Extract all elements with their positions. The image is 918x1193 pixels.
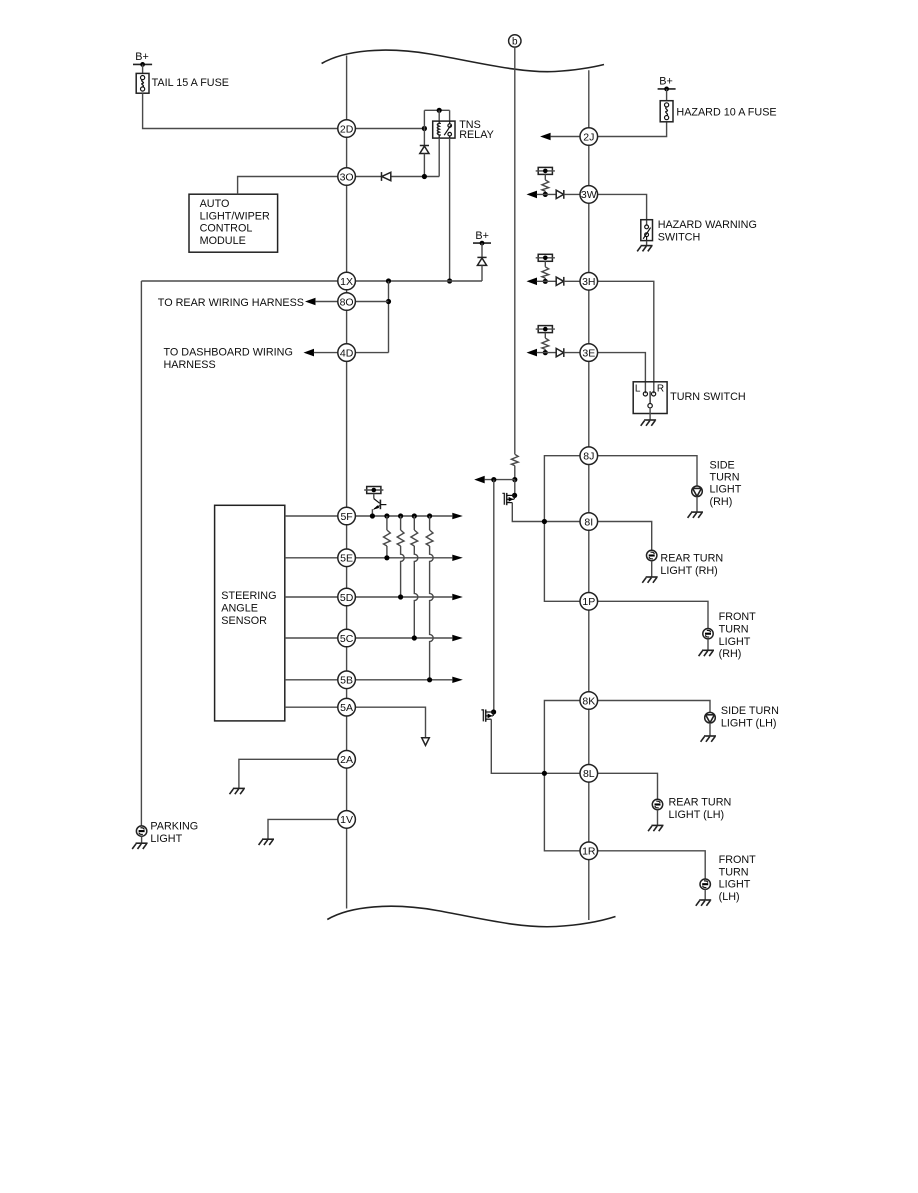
label TO DASHBOARD WIRING HARNESS bbox=[164, 346, 293, 370]
resistor R5 (center bus) bbox=[511, 454, 518, 465]
lamp SIDE TURN LIGHT (RH) bbox=[692, 486, 703, 512]
wire: resistor to junction bbox=[512, 466, 517, 483]
node 4D to-dashboard arrow bbox=[304, 349, 338, 357]
wire: sensor pin to 5D bbox=[285, 596, 338, 598]
wire: 1X/8O/4D junction vertical bbox=[386, 281, 391, 353]
svg-text:TO DASHBOARD WIRING: TO DASHBOARD WIRING bbox=[164, 346, 293, 358]
wire: rail to coil top pin bbox=[438, 110, 440, 121]
wire: 3E to turn switch L bbox=[598, 353, 646, 394]
module AUTO LIGHT/WIPER CONTROL MODULE bbox=[189, 194, 278, 252]
ground (side turn RH) bbox=[688, 512, 703, 518]
svg-text:2A: 2A bbox=[340, 754, 353, 766]
node 8I bbox=[580, 513, 598, 531]
wire: 4D right stub bbox=[355, 352, 388, 354]
svg-text:5C: 5C bbox=[340, 633, 354, 645]
wire: junction arrow left bbox=[474, 476, 515, 484]
svg-text:TURN SWITCH: TURN SWITCH bbox=[670, 391, 746, 403]
resistor R3 (5F-5C) bbox=[411, 516, 418, 641]
svg-text:LIGHT: LIGHT bbox=[150, 833, 182, 845]
junction dots on 5F row bbox=[370, 513, 432, 518]
node 1R bbox=[580, 842, 598, 860]
svg-text:1V: 1V bbox=[340, 814, 353, 826]
svg-text:3H: 3H bbox=[582, 276, 595, 288]
svg-text:R: R bbox=[657, 384, 664, 395]
ground (2A) bbox=[230, 788, 245, 794]
wire: 2A to ground bbox=[239, 759, 338, 788]
svg-text:HARNESS: HARNESS bbox=[164, 359, 216, 371]
lamp PARKING LIGHT bbox=[136, 820, 198, 844]
svg-text:L: L bbox=[635, 384, 641, 395]
wire: 8K to side turn light LH bbox=[598, 701, 710, 713]
wire: 1P to front turn light RH bbox=[598, 601, 708, 628]
node 1V bbox=[338, 811, 356, 829]
lamp SIDE TURN LIGHT (LH) bbox=[705, 712, 716, 735]
wire: 5A to open terminator bbox=[355, 707, 425, 737]
svg-text:LIGHT: LIGHT bbox=[719, 879, 751, 891]
svg-text:SIDE TURN: SIDE TURN bbox=[721, 705, 779, 717]
svg-text:8J: 8J bbox=[583, 451, 594, 463]
node 2J arrow (to hazard feed) bbox=[540, 133, 580, 141]
node 8L bbox=[580, 765, 598, 783]
fuse TAIL 15 A FUSE bbox=[136, 73, 229, 93]
svg-text:FRONT: FRONT bbox=[719, 854, 757, 866]
wire: 5E row to arrow bbox=[355, 555, 462, 561]
resistor R1 (5F-5E) bbox=[384, 516, 391, 560]
wire: B+ to TAIL fuse bbox=[142, 64, 144, 73]
svg-text:LIGHT (RH): LIGHT (RH) bbox=[660, 565, 717, 577]
svg-text:SENSOR: SENSOR bbox=[221, 615, 267, 627]
svg-text:TURN: TURN bbox=[710, 471, 740, 483]
svg-text:2D: 2D bbox=[340, 123, 354, 135]
wire: 8J left branch down to 1P bbox=[542, 456, 580, 602]
node 5B bbox=[338, 671, 356, 689]
svg-text:3E: 3E bbox=[582, 347, 595, 359]
svg-text:8I: 8I bbox=[584, 516, 593, 528]
node 1X bbox=[338, 272, 356, 290]
diode D2 (3O line) bbox=[382, 172, 391, 181]
wire: sensor pin to 5C bbox=[285, 637, 338, 639]
ground (1V) bbox=[259, 839, 274, 845]
wire: 8L to rear turn light LH bbox=[598, 773, 658, 799]
wire: 2J to HAZARD fuse bbox=[598, 122, 667, 137]
ground (turn switch) bbox=[641, 420, 656, 426]
wire: 3O to relay coil bottom bbox=[355, 138, 439, 179]
wire: rail to switch top pin bbox=[449, 110, 451, 121]
wire: relay top rail bbox=[424, 108, 449, 113]
node 4D bbox=[338, 344, 356, 362]
svg-text:TAIL 15 A FUSE: TAIL 15 A FUSE bbox=[152, 77, 229, 89]
svg-text:PARKING: PARKING bbox=[150, 820, 198, 832]
svg-text:REAR TURN: REAR TURN bbox=[669, 797, 732, 809]
wire: B+ to HAZARD fuse bbox=[666, 89, 668, 101]
wire: sensor pin to 5A bbox=[285, 706, 338, 708]
module STEERING ANGLE SENSOR bbox=[215, 505, 285, 721]
connector/resistor/diode set at 3H bbox=[527, 254, 581, 285]
node 3O bbox=[338, 168, 356, 186]
svg-text:B+: B+ bbox=[659, 76, 673, 88]
svg-text:(RH): (RH) bbox=[719, 648, 742, 660]
label REAR TURN LIGHT (RH) bbox=[660, 552, 723, 576]
node 1P bbox=[580, 593, 598, 611]
wire: sensor pin to 5B bbox=[285, 679, 338, 681]
wire: lower harness break (wavy line) bbox=[327, 906, 615, 926]
diode D1 (TNS relay clamp) bbox=[420, 129, 429, 177]
svg-text:1X: 1X bbox=[340, 276, 353, 288]
node B+ (TNS backup) and diode D3 bbox=[473, 230, 491, 281]
svg-text:ANGLE: ANGLE bbox=[221, 602, 258, 614]
node 3E bbox=[580, 344, 598, 362]
node 3W bbox=[580, 186, 598, 204]
svg-text:b: b bbox=[512, 37, 518, 48]
node 2D bbox=[338, 120, 356, 138]
node 2J bbox=[580, 128, 598, 146]
svg-text:B+: B+ bbox=[135, 51, 149, 63]
svg-text:SIDE: SIDE bbox=[710, 459, 735, 471]
transistor Q1 (to 5F row) bbox=[372, 494, 386, 517]
svg-text:TURN: TURN bbox=[719, 866, 749, 878]
node 5D bbox=[338, 588, 356, 606]
switch S1 HAZARD WARNING SWITCH bbox=[641, 219, 757, 243]
resistor R2 (5F-5D) bbox=[397, 516, 404, 600]
svg-text:1P: 1P bbox=[582, 596, 595, 608]
ground (front turn LH) bbox=[696, 900, 711, 906]
svg-text:(RH): (RH) bbox=[710, 496, 733, 508]
fuse HAZARD 10 A FUSE bbox=[660, 101, 776, 122]
svg-text:CONTROL: CONTROL bbox=[200, 223, 253, 235]
connector/resistor/diode set at 3E bbox=[527, 326, 581, 357]
ground (hazard switch) bbox=[637, 246, 652, 252]
wire: TAIL fuse to node 2D bbox=[143, 93, 338, 128]
svg-text:STEERING: STEERING bbox=[221, 590, 276, 602]
svg-text:B+: B+ bbox=[475, 230, 489, 242]
wire: 1X row right to B+ diode bbox=[355, 278, 482, 283]
transistor Q3 (LH output) bbox=[481, 710, 493, 722]
wire: 8J to side turn light RH bbox=[598, 456, 697, 486]
wire: 8I to rear turn light RH bbox=[598, 522, 652, 551]
wire: 1X to parking light bbox=[140, 281, 142, 826]
svg-text:3W: 3W bbox=[581, 189, 597, 201]
label FRONT TURN LIGHT (RH) bbox=[719, 611, 757, 660]
wire: 1V to ground bbox=[268, 819, 338, 838]
wire: center bus to Q2 drain bbox=[512, 480, 517, 498]
node 8O bbox=[338, 293, 356, 311]
wire: 5C row to arrow bbox=[355, 635, 462, 641]
ground (rear turn LH) bbox=[648, 825, 663, 831]
svg-text:LIGHT: LIGHT bbox=[710, 483, 742, 495]
label REAR TURN LIGHT (LH) bbox=[669, 797, 732, 821]
node B+ (hazard supply) bbox=[658, 76, 676, 92]
svg-text:REAR TURN: REAR TURN bbox=[660, 552, 723, 564]
transistor Q2 (RH output) bbox=[502, 493, 514, 505]
switch S2 TURN SWITCH bbox=[633, 382, 745, 420]
node 5F bbox=[338, 507, 356, 525]
node 3H bbox=[580, 273, 598, 291]
svg-text:5E: 5E bbox=[340, 553, 353, 565]
lamp FRONT TURN LIGHT (RH) bbox=[703, 629, 713, 650]
svg-text:(LH): (LH) bbox=[719, 891, 740, 903]
node 8K bbox=[580, 692, 598, 710]
wire: 1X row left to parking-light drop bbox=[141, 280, 337, 282]
wire: right bus vertical (2J-1R) bbox=[588, 70, 590, 920]
node 5C bbox=[338, 629, 356, 647]
label SIDE TURN LIGHT (LH) bbox=[721, 705, 779, 729]
wire: 3H to turn switch R bbox=[598, 281, 654, 393]
svg-text:5D: 5D bbox=[340, 592, 354, 604]
svg-text:SWITCH: SWITCH bbox=[658, 232, 701, 244]
svg-text:8L: 8L bbox=[583, 768, 595, 780]
svg-text:5F: 5F bbox=[340, 511, 352, 523]
open arrow terminator (5A) bbox=[422, 738, 430, 746]
svg-text:5B: 5B bbox=[340, 675, 353, 687]
svg-text:LIGHT: LIGHT bbox=[719, 636, 751, 648]
wire: module to node 3O bbox=[238, 177, 338, 195]
wire: Q2 source to 8I row bbox=[512, 503, 580, 522]
svg-text:5A: 5A bbox=[340, 702, 353, 714]
svg-text:LIGHT/WIPER: LIGHT/WIPER bbox=[200, 210, 270, 222]
svg-text:RELAY: RELAY bbox=[459, 129, 494, 141]
lamp REAR TURN LIGHT (RH) bbox=[647, 550, 657, 576]
wire: 3W to hazard switch bbox=[598, 194, 647, 225]
connector symbol (box-dot) above transistor Q1 bbox=[364, 487, 383, 494]
wire: 5D row to arrow bbox=[355, 594, 462, 600]
wire: sensor pin to 5F bbox=[285, 515, 338, 517]
svg-text:4D: 4D bbox=[340, 347, 354, 359]
relay U1 TNS RELAY box bbox=[433, 119, 494, 141]
lamp FRONT TURN LIGHT (LH) bbox=[700, 879, 710, 900]
wire: sensor pin to 5E bbox=[285, 557, 338, 559]
resistor R4 (5F-5B) bbox=[426, 516, 433, 682]
label TO REAR WIRING HARNESS bbox=[158, 297, 304, 309]
wire: left bus vertical (2D-1V) bbox=[346, 56, 348, 909]
wire: 2D to TNS relay coil bbox=[355, 126, 427, 131]
wire: 1R to front turn light LH bbox=[598, 851, 706, 879]
node B+ (tail fuse supply) bbox=[133, 51, 152, 67]
label FRONT TURN LIGHT (LH) bbox=[719, 854, 757, 903]
node 5E bbox=[338, 549, 356, 567]
svg-text:TURN: TURN bbox=[719, 623, 749, 635]
wire: branch to Q3 (LH) bbox=[491, 480, 496, 715]
wire: 8O right stub bbox=[355, 301, 388, 303]
node 8J bbox=[580, 447, 598, 465]
ground (side turn LH) bbox=[701, 736, 716, 742]
node 8O to-rear-harness arrow bbox=[305, 298, 338, 306]
svg-text:2J: 2J bbox=[583, 131, 594, 143]
svg-text:LIGHT (LH): LIGHT (LH) bbox=[721, 717, 777, 729]
node 2A bbox=[338, 751, 356, 769]
label SIDE TURN LIGHT (RH) bbox=[710, 459, 742, 507]
wire: 8K left branch down to 1R bbox=[542, 701, 580, 851]
ground (rear turn RH) bbox=[642, 577, 657, 583]
svg-text:1R: 1R bbox=[582, 846, 596, 858]
wire: 5F row to arrow bbox=[355, 513, 462, 519]
ground (front turn RH) bbox=[699, 650, 714, 656]
svg-text:TO REAR WIRING HARNESS: TO REAR WIRING HARNESS bbox=[158, 297, 304, 309]
ground (parking light) bbox=[132, 843, 147, 849]
svg-text:LIGHT (LH): LIGHT (LH) bbox=[669, 809, 725, 821]
svg-text:8O: 8O bbox=[340, 296, 354, 308]
node 5A bbox=[338, 698, 356, 716]
svg-text:AUTO: AUTO bbox=[200, 198, 230, 210]
svg-text:MODULE: MODULE bbox=[200, 235, 246, 247]
node b (page connector) bbox=[509, 35, 521, 48]
wire: relay switch to 1X row bbox=[447, 138, 452, 284]
svg-text:FRONT: FRONT bbox=[719, 611, 757, 623]
connector/resistor/diode set at 3W bbox=[527, 167, 581, 198]
svg-text:3O: 3O bbox=[340, 171, 354, 183]
wire: upper harness break (wavy line) bbox=[322, 50, 604, 72]
wire: 5B row to arrow bbox=[355, 677, 462, 683]
wire: hazard switch to ground bbox=[646, 241, 648, 246]
wire: rail left drop to 2D wire bbox=[423, 110, 425, 128]
svg-text:8K: 8K bbox=[582, 695, 595, 707]
svg-text:HAZARD WARNING: HAZARD WARNING bbox=[658, 219, 757, 231]
lamp REAR TURN LIGHT (LH) bbox=[652, 799, 662, 825]
wire: center bus from b bbox=[514, 47, 516, 454]
svg-text:HAZARD 10 A FUSE: HAZARD 10 A FUSE bbox=[676, 106, 776, 118]
wire: Q3 source to 8L row bbox=[491, 719, 580, 773]
